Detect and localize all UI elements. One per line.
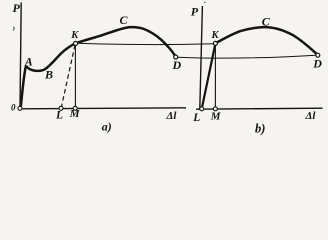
svg-text:D: D	[312, 57, 322, 71]
svg-text:P: P	[13, 1, 21, 15]
svg-text:K: K	[70, 30, 79, 41]
svg-text:C: C	[262, 14, 271, 28]
svg-text:L: L	[55, 109, 63, 121]
svg-text:Δl: Δl	[166, 110, 178, 122]
svg-text:L: L	[192, 112, 200, 124]
svg-text:M: M	[210, 111, 222, 123]
svg-text:b): b)	[255, 122, 265, 136]
svg-text:A: A	[24, 55, 33, 69]
svg-text:K: K	[211, 30, 220, 41]
svg-text:B: B	[44, 68, 53, 82]
svg-text:M: M	[69, 108, 81, 120]
svg-text:C: C	[120, 13, 129, 27]
svg-text:D: D	[172, 58, 182, 72]
svg-text:P: P	[191, 4, 199, 18]
svg-text:0: 0	[11, 103, 16, 113]
svg-text:а): а)	[102, 120, 112, 134]
svg-text:Δl: Δl	[305, 110, 317, 122]
